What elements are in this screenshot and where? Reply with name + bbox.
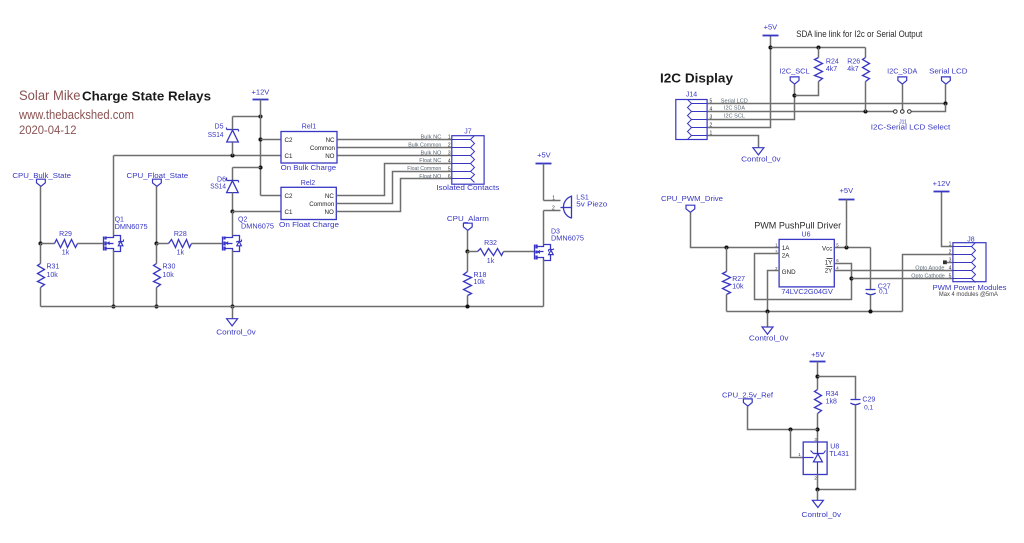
wire — [233, 116, 261, 118]
wire — [40, 288, 42, 307]
wire — [41, 243, 55, 245]
svg-text:0,1: 0,1 — [864, 404, 873, 411]
svg-text:U8: U8 — [830, 443, 839, 450]
transistor D3 DMN6075 — [535, 228, 585, 260]
wire — [157, 243, 169, 245]
svg-text:CPU_Float_State: CPU_Float_State — [127, 173, 189, 180]
svg-text:DMN6075: DMN6075 — [115, 224, 148, 231]
label PWM Power Modules — [933, 283, 1007, 292]
node Serial LCD junction — [943, 101, 947, 105]
svg-text:1: 1 — [949, 241, 952, 247]
wire — [817, 362, 819, 390]
svg-text:1: 1 — [448, 135, 451, 141]
svg-text:Isolated Contacts: Isolated Contacts — [436, 185, 500, 192]
svg-text:Control_0v: Control_0v — [216, 330, 256, 337]
title 2020-04-12 — [19, 123, 77, 137]
wire — [726, 295, 728, 312]
node GND rail — [765, 309, 769, 313]
wire — [337, 179, 452, 212]
resistor R28 — [169, 231, 192, 256]
power +5V piezo — [536, 150, 552, 163]
net label Float NO — [419, 174, 442, 180]
wire — [727, 311, 903, 313]
svg-text:Q2: Q2 — [238, 217, 247, 224]
ic U8 TL431 — [798, 437, 849, 481]
power +12V — [252, 88, 270, 100]
resistor R32 — [478, 240, 504, 265]
svg-text:CPU_Bulk_State: CPU_Bulk_State — [12, 173, 71, 180]
svg-text:U6: U6 — [802, 232, 811, 239]
svg-text:SS14: SS14 — [210, 184, 226, 191]
svg-text:4: 4 — [949, 265, 952, 271]
svg-text:D3: D3 — [551, 228, 560, 235]
svg-text:6: 6 — [448, 174, 451, 180]
wire — [726, 248, 728, 272]
wire — [912, 104, 946, 112]
net label Serial LCD — [721, 98, 748, 104]
port CPU_Alarm — [447, 216, 489, 230]
wire — [817, 490, 819, 501]
node Q1 source rail — [111, 304, 115, 308]
svg-text:CPU_Alarm: CPU_Alarm — [447, 216, 489, 223]
svg-text:NC: NC — [325, 193, 334, 200]
svg-text:+5V: +5V — [537, 150, 551, 159]
wire — [945, 85, 947, 104]
svg-text:1A: 1A — [782, 245, 790, 252]
wire 2A feedback — [755, 254, 852, 300]
wire — [865, 82, 867, 112]
svg-text:D6: D6 — [217, 176, 226, 183]
wire — [40, 244, 42, 264]
svg-text:Bulk NO: Bulk NO — [421, 150, 442, 156]
node C29 branch — [815, 374, 819, 378]
svg-text:C1: C1 — [285, 209, 293, 216]
capacitor C29 — [850, 396, 875, 411]
svg-text:10k: 10k — [732, 284, 744, 291]
svg-text:10k: 10k — [474, 279, 486, 286]
title Charge State Relays — [82, 89, 211, 104]
wire — [232, 251, 234, 307]
node R26 SDA — [863, 109, 867, 113]
wire — [232, 307, 234, 319]
wire — [543, 260, 545, 307]
svg-text:2: 2 — [448, 143, 451, 149]
svg-text:Common: Common — [310, 145, 336, 152]
svg-text:Opto Cathode: Opto Cathode — [911, 273, 945, 279]
svg-text:2: 2 — [949, 249, 952, 255]
ground Control_0v J14 — [741, 148, 781, 164]
svg-text:R29: R29 — [59, 231, 72, 238]
svg-text:R34: R34 — [826, 391, 839, 398]
net label Float Common — [407, 166, 441, 172]
svg-text:1Y: 1Y — [825, 260, 833, 267]
node 1Y cathode — [849, 276, 853, 280]
power +5V U6 — [839, 186, 855, 200]
node +12V branch D5 — [258, 114, 262, 118]
ground Control_0v TL431 — [802, 500, 842, 519]
node TL431 gnd — [815, 487, 819, 491]
node alarm gate — [465, 249, 469, 253]
svg-text:Rel1: Rel1 — [302, 124, 317, 131]
node +5V branch — [768, 45, 772, 49]
wire — [232, 143, 234, 156]
wire — [156, 244, 158, 264]
resistor R27 — [723, 272, 746, 295]
node ref branch — [788, 427, 792, 431]
diode D6 — [210, 176, 238, 192]
svg-text:5: 5 — [949, 273, 952, 279]
jumper J11 — [894, 110, 912, 126]
resistor R31 — [38, 263, 60, 287]
svg-text:R26: R26 — [847, 59, 860, 66]
wire — [544, 210, 561, 212]
wire GND pin — [768, 271, 780, 312]
svg-text:NC: NC — [326, 137, 335, 144]
svg-text:Opto Anode: Opto Anode — [915, 265, 944, 271]
svg-text:+12V: +12V — [933, 179, 951, 188]
svg-text:Control_0v: Control_0v — [741, 156, 781, 163]
svg-text:Control_0v: Control_0v — [749, 336, 789, 343]
node R24 SCL — [792, 93, 796, 97]
diode D5 — [208, 124, 239, 142]
svg-text:J7: J7 — [464, 128, 472, 135]
wire — [261, 195, 282, 197]
connector J7 — [436, 128, 500, 192]
svg-text:2Y: 2Y — [825, 268, 833, 275]
wire — [767, 312, 769, 328]
port CPU_Bulk_State — [12, 173, 71, 187]
port I2C_SDA — [887, 69, 918, 85]
wire — [40, 187, 42, 244]
node D5 anode — [230, 153, 234, 157]
wire — [791, 430, 804, 458]
svg-text:0,1: 0,1 — [879, 288, 888, 295]
svg-text:DMN6075: DMN6075 — [241, 224, 274, 231]
svg-text:On Float Charge: On Float Charge — [279, 222, 339, 229]
node R27 top — [724, 245, 728, 249]
svg-text:I2C Display: I2C Display — [660, 71, 734, 86]
svg-text:CPU_PWM_Drive: CPU_PWM_Drive — [661, 196, 723, 203]
wire Opto Cathode — [852, 278, 953, 280]
svg-text:Solar Mike: Solar Mike — [19, 87, 81, 103]
resistor R30 — [154, 263, 176, 287]
svg-text:GND: GND — [782, 269, 796, 276]
svg-text:4: 4 — [448, 158, 451, 164]
net label I2C SDA — [724, 105, 745, 111]
wire — [467, 231, 469, 252]
svg-text:R24: R24 — [826, 59, 839, 66]
wire — [156, 187, 158, 244]
wire — [192, 243, 223, 245]
port CPU_PWM_Drive — [661, 196, 723, 212]
net label Opto Cathode — [911, 273, 945, 279]
svg-text:+5V: +5V — [764, 22, 778, 31]
relay Rel2 — [279, 180, 339, 229]
svg-text:5: 5 — [448, 166, 451, 172]
connector J8 — [949, 236, 986, 282]
wire — [233, 167, 261, 169]
relay Rel1 — [281, 124, 337, 172]
svg-text:1k: 1k — [62, 249, 70, 256]
title Solar Mike — [19, 87, 81, 103]
node C27 rail — [868, 309, 872, 313]
wire — [338, 147, 452, 149]
svg-text:C29: C29 — [862, 396, 875, 403]
svg-text:R27: R27 — [732, 276, 745, 283]
net label Bulk NO — [421, 150, 442, 156]
wire — [337, 172, 452, 204]
svg-text:Float NO: Float NO — [419, 174, 442, 180]
wire — [708, 111, 894, 113]
node Rel1 C2 — [258, 137, 262, 141]
svg-text:+12V: +12V — [252, 88, 270, 97]
wire — [468, 251, 478, 253]
svg-text:1k8: 1k8 — [826, 398, 837, 405]
svg-text:10k: 10k — [163, 272, 175, 279]
svg-text:Bulk Common: Bulk Common — [408, 142, 441, 148]
wire — [846, 200, 848, 248]
svg-text:J8: J8 — [967, 236, 975, 243]
svg-text:C2: C2 — [285, 193, 293, 200]
svg-text:I2C SDA: I2C SDA — [724, 105, 745, 111]
resistor R24 — [815, 58, 839, 82]
svg-text:I2C_SCL: I2C_SCL — [780, 69, 810, 76]
svg-text:3: 3 — [949, 257, 952, 263]
transistor Q1 — [104, 217, 148, 252]
svg-text:Float NC: Float NC — [419, 158, 441, 164]
capacitor C27 — [866, 284, 891, 296]
svg-text:1k: 1k — [487, 258, 495, 265]
wire — [795, 82, 819, 96]
transistor Q2 — [223, 217, 275, 252]
node Q2 drain — [230, 209, 234, 213]
wire — [817, 414, 819, 443]
wire — [113, 156, 115, 236]
svg-text:10k: 10k — [47, 272, 59, 279]
svg-text:DMN6075: DMN6075 — [551, 236, 584, 243]
wire — [113, 251, 115, 307]
svg-text:Float Common: Float Common — [407, 166, 441, 172]
wire — [818, 405, 856, 490]
wire — [903, 255, 953, 312]
wire — [771, 47, 866, 49]
port CPU_2.5v_Ref — [722, 392, 773, 406]
wire — [41, 306, 544, 308]
wire — [338, 155, 452, 157]
svg-text:C2: C2 — [285, 137, 293, 144]
svg-text:SDA line link for I2c or Seria: SDA line link for I2c or Serial Output — [796, 29, 922, 40]
svg-text:+5V: +5V — [811, 350, 825, 359]
node R30 rail — [154, 304, 158, 308]
wire — [467, 252, 469, 272]
resistor R26 — [847, 58, 869, 82]
wire — [156, 288, 158, 307]
ground Control_0v PWM — [749, 327, 789, 343]
node D6 branch — [258, 165, 262, 169]
wire — [870, 295, 872, 312]
wire — [78, 243, 104, 245]
svg-text:4k7: 4k7 — [847, 66, 858, 73]
wire — [114, 155, 282, 157]
svg-text:1k: 1k — [177, 249, 185, 256]
wire — [233, 211, 282, 213]
resistor R18 — [464, 272, 487, 296]
svg-text:+5V: +5V — [840, 186, 854, 195]
svg-text:Serial LCD: Serial LCD — [929, 69, 967, 76]
svg-text:Bulk NC: Bulk NC — [421, 135, 442, 141]
svg-text:74LVC2G04GV: 74LVC2G04GV — [781, 287, 833, 296]
wire — [748, 407, 818, 430]
power +5V TL431 — [810, 350, 826, 362]
port Serial LCD — [929, 69, 967, 85]
svg-text:R18: R18 — [474, 272, 487, 279]
wire — [902, 85, 904, 110]
wire — [708, 103, 946, 105]
svg-text:2: 2 — [552, 205, 555, 211]
port I2C_SCL — [780, 69, 810, 85]
svg-text:1: 1 — [552, 196, 555, 202]
net label Bulk NC — [421, 135, 442, 141]
wire — [942, 192, 953, 247]
label Max 4 modules — [939, 291, 999, 298]
title I2C Display — [660, 71, 734, 86]
port CPU_Float_State — [127, 173, 189, 187]
net label Opto Anode — [915, 265, 944, 271]
wire — [946, 262, 953, 264]
power +12V J8 — [933, 179, 951, 192]
wire — [691, 213, 780, 248]
wire — [818, 377, 856, 400]
wire 2Y Opto Anode — [835, 270, 953, 272]
svg-text:Q1: Q1 — [115, 217, 124, 224]
resistor R34 — [815, 390, 839, 414]
svg-text:CPU_2.5v_Ref: CPU_2.5v_Ref — [722, 392, 773, 399]
wire — [870, 248, 872, 290]
wire — [504, 251, 535, 253]
wire — [818, 48, 820, 58]
title www.thebackshed.com — [18, 107, 134, 122]
svg-text:NO: NO — [325, 153, 334, 160]
svg-text:NO: NO — [325, 209, 334, 216]
note PWM PushPull Driver — [754, 221, 841, 231]
svg-text:Vcc: Vcc — [822, 245, 832, 252]
svg-text:3: 3 — [448, 151, 451, 157]
node gate R28 — [154, 241, 158, 245]
svg-text:R32: R32 — [484, 240, 497, 247]
wire — [817, 475, 819, 490]
svg-text:2020-04-12: 2020-04-12 — [19, 123, 77, 137]
svg-text:PWM PushPull Driver: PWM PushPull Driver — [754, 221, 841, 231]
wire — [232, 117, 234, 130]
svg-text:R31: R31 — [47, 263, 60, 270]
wire — [337, 164, 452, 196]
svg-text:R28: R28 — [174, 231, 187, 238]
svg-text:D5: D5 — [215, 124, 224, 131]
svg-text:C1: C1 — [285, 153, 293, 160]
wire — [467, 296, 469, 307]
node ground rail — [230, 304, 234, 308]
speaker LS1 5v Piezo — [552, 195, 607, 219]
wire Vcc — [835, 247, 871, 249]
net label I2C SCL — [724, 113, 745, 119]
wire — [232, 212, 234, 236]
svg-text:www.thebackshed.com: www.thebackshed.com — [18, 107, 134, 122]
node Vcc +5V — [844, 245, 848, 249]
svg-text:TL431: TL431 — [829, 451, 849, 458]
svg-text:On Bulk Charge: On Bulk Charge — [281, 165, 337, 172]
wire — [260, 100, 262, 196]
svg-text:I2C_SDA: I2C_SDA — [887, 69, 918, 76]
label I2C-Serial LCD Select — [871, 124, 951, 131]
wire — [338, 139, 452, 141]
svg-text:Control_0v: Control_0v — [802, 512, 842, 519]
net label Float NC — [419, 158, 441, 164]
wire — [232, 193, 234, 212]
node gate R29 — [38, 241, 42, 245]
net label Bulk Common — [408, 142, 441, 148]
wire — [544, 200, 561, 202]
svg-text:5v Piezo: 5v Piezo — [576, 202, 607, 209]
ground Control_0v — [216, 319, 256, 337]
node R34 ref — [815, 427, 819, 431]
wire — [543, 164, 545, 201]
svg-text:LS1: LS1 — [576, 195, 589, 202]
wire — [708, 85, 795, 120]
power +5V I2C — [763, 22, 779, 35]
svg-text:Rel2: Rel2 — [301, 180, 316, 187]
connector J14 — [676, 92, 713, 140]
node R24 top — [816, 45, 820, 49]
wire — [543, 211, 545, 245]
wire — [865, 48, 867, 58]
wire — [708, 36, 771, 128]
svg-text:J14: J14 — [686, 92, 697, 99]
node R18 rail — [465, 304, 469, 308]
svg-text:4k7: 4k7 — [826, 66, 837, 73]
wire — [708, 136, 759, 148]
op-amp U6 74LVC2G04GV — [775, 232, 839, 296]
svg-text:I2C-Serial LCD Select: I2C-Serial LCD Select — [871, 124, 951, 131]
svg-text:Max 4 modules @5mA: Max 4 modules @5mA — [939, 291, 999, 298]
svg-text:R30: R30 — [163, 263, 176, 270]
svg-text:I2C SCL: I2C SCL — [724, 113, 745, 119]
node J8 pin3 stub — [943, 260, 947, 264]
wire — [232, 168, 234, 181]
svg-text:2A: 2A — [782, 252, 790, 259]
svg-text:Charge State Relays: Charge State Relays — [82, 89, 211, 104]
resistor R29 — [55, 231, 78, 256]
note SDA line link — [796, 29, 922, 40]
svg-text:SS14: SS14 — [208, 132, 224, 139]
wire — [261, 139, 282, 141]
svg-text:Common: Common — [309, 201, 335, 208]
